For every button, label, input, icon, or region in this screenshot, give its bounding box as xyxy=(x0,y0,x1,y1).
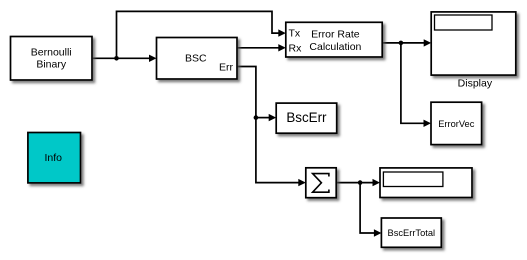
wire: junction down to ErrorVec xyxy=(401,43,431,127)
svg-text:Info: Info xyxy=(44,152,62,164)
block: total-errors display xyxy=(380,168,472,198)
wire: junction down to BscErrTotal xyxy=(360,183,381,237)
svg-text:BscErrTotal: BscErrTotal xyxy=(388,228,436,238)
svg-text:Binary: Binary xyxy=(36,59,67,71)
node: junction on Sum output xyxy=(358,180,363,185)
svg-text:BSC: BSC xyxy=(185,52,207,64)
svg-text:Error Rate: Error Rate xyxy=(311,28,360,40)
svg-text:ErrorVec: ErrorVec xyxy=(438,119,475,129)
svg-text:Tx: Tx xyxy=(289,28,301,40)
block: Bernoulli Binary source xyxy=(11,37,93,81)
svg-text:Bernoulli: Bernoulli xyxy=(31,47,72,59)
block: Display (error rate display) xyxy=(431,12,516,90)
block: BscErrTotal to-workspace xyxy=(381,218,441,247)
svg-text:Err: Err xyxy=(219,61,234,73)
block: Sum (running total) xyxy=(306,168,336,198)
svg-text:Display: Display xyxy=(458,78,493,90)
wire: Err junction to BscErr goto tag xyxy=(256,114,276,121)
node: junction on Error Rate output xyxy=(399,41,404,46)
wire: Error Rate Calculation output to Display xyxy=(382,39,431,46)
svg-text:Calculation: Calculation xyxy=(309,41,361,53)
svg-text:Rx: Rx xyxy=(289,42,303,54)
block: Info (doc block, cyan) xyxy=(28,133,81,183)
block: Error Rate Calculation xyxy=(286,22,382,57)
block: BSC channel xyxy=(157,38,238,80)
block: ErrorVec to-workspace xyxy=(431,102,482,144)
node: junction on Err wire feeding BscErr xyxy=(254,115,259,120)
wire: Bernoulli Binary output to BSC input xyxy=(92,55,157,62)
wire: Sum output to scope display xyxy=(336,179,380,186)
wire: BSC output 1 to Rx input of Error Rate Calculation xyxy=(237,44,286,51)
wire: BSC Err output down to Sum input xyxy=(237,67,306,187)
svg-text:BscErr: BscErr xyxy=(286,110,327,125)
node: branch junction on Bernoulli output xyxy=(114,56,119,61)
block: BscErr goto tag xyxy=(276,103,337,133)
wire: feedback from junction up and over to Tx input of Error Rate Calculation xyxy=(117,11,286,58)
